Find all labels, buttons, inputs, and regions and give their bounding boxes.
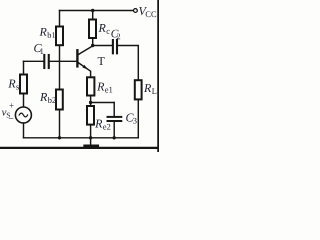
frame right border bbox=[157, 0, 159, 152]
node top rail Rc junction bbox=[91, 9, 94, 12]
label C3 bbox=[126, 114, 136, 124]
wire vs to ground rail bbox=[23, 123, 25, 138]
wire C3 top bbox=[113, 103, 115, 117]
label Re1 bbox=[97, 83, 112, 93]
label minus bbox=[9, 117, 14, 120]
label plus bbox=[9, 103, 13, 107]
wire emitter node to C3 bbox=[91, 102, 115, 104]
node ground junction bbox=[89, 136, 92, 139]
label T bbox=[98, 57, 105, 65]
wire Re2 bottom bbox=[90, 125, 92, 138]
wire base bbox=[49, 60, 77, 62]
terminal VCC circle bbox=[134, 9, 138, 13]
resistor Rb2 bbox=[56, 90, 63, 110]
wire RL bottom bbox=[137, 99, 139, 137]
wire Re1 bottom bbox=[90, 96, 92, 107]
transistor T emitter lead bbox=[79, 63, 91, 77]
resistor Re2 bbox=[87, 106, 94, 125]
label Re2 bbox=[95, 120, 110, 130]
transistor T emitter arrow bbox=[82, 65, 88, 70]
capacitor C3 bbox=[108, 117, 122, 121]
wire Rb2 top bbox=[59, 61, 61, 89]
label Rb1 bbox=[39, 28, 55, 38]
wire collector to C2 bbox=[93, 45, 112, 47]
label VCC bbox=[139, 7, 156, 17]
wire Rs to vs bbox=[23, 94, 25, 107]
label Rs bbox=[8, 80, 19, 90]
ground stub bbox=[90, 138, 92, 145]
resistor RL bbox=[135, 80, 142, 99]
wire Rb2 bottom bbox=[59, 110, 61, 138]
resistor Rb1 bbox=[56, 27, 63, 46]
wire Rc top bbox=[92, 11, 94, 20]
wire C2 to RL bbox=[117, 46, 138, 81]
label C2 bbox=[111, 30, 120, 40]
capacitor C2 bbox=[113, 40, 117, 53]
source vS sine bbox=[19, 113, 27, 117]
node C3 bottom junction bbox=[113, 136, 116, 139]
resistor Rc bbox=[89, 20, 96, 39]
label Rc bbox=[98, 24, 109, 34]
node collector junction bbox=[91, 44, 94, 47]
resistor Rs bbox=[20, 75, 27, 94]
wire top rail VCC bbox=[60, 10, 135, 12]
transistor T base bar bbox=[76, 50, 78, 66]
wire Rc bottom bbox=[92, 38, 94, 45]
ground bar bbox=[85, 144, 98, 147]
node Rb2 bottom junction bbox=[58, 136, 61, 139]
label C1 bbox=[34, 44, 43, 54]
wire C3 bottom bbox=[113, 121, 115, 138]
wire source top bbox=[23, 61, 25, 74]
wire Rb1 bottom bbox=[59, 45, 61, 61]
label RL bbox=[144, 84, 156, 94]
transistor T collector lead bbox=[79, 46, 93, 55]
source vS circle bbox=[15, 107, 31, 123]
node emitter C3 junction bbox=[89, 101, 92, 104]
label vS bbox=[2, 110, 10, 117]
frame bottom border bbox=[0, 147, 159, 149]
wire input node horizontal bbox=[24, 60, 44, 62]
wire Rb1 top bbox=[59, 11, 61, 27]
label Rb2 bbox=[40, 93, 56, 103]
resistor Re1 bbox=[87, 77, 94, 95]
wire bottom rail bbox=[24, 137, 139, 139]
capacitor C1 bbox=[44, 55, 48, 68]
